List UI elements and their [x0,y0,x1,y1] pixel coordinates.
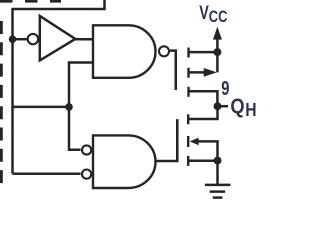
transistor Q1 gate bar [175,51,177,90]
wire: dot to inverter bubble [13,38,28,41]
wire: left bus to node B [13,106,70,109]
svg-text:9: 9 [221,78,229,100]
wire: vertical through node B [69,102,81,150]
transistor Q2 drain contact bar [187,114,189,124]
NAND U3 input bubble 1 [82,145,91,154]
transistor Q2 gate bar [176,119,178,161]
transistor Q1 drain contact bar [187,87,189,97]
wire: Q2 body lead [198,141,218,160]
NAND gate U2 (top) [93,25,156,78]
transistor Q2 source contact bar [187,156,189,166]
wire: NAND2 output to Q2 gate [157,119,178,161]
dashed box top edge [0,0,61,3]
wire: top horizontal [13,0,105,9]
wire: VCC rail [216,35,219,72]
svg-text:V: V [199,3,209,24]
wire: Q1 drain lead to output [189,91,218,106]
node: VCC junction dot [213,48,221,56]
node A (dot on left bus) [9,35,17,43]
transistor Q2 body contact bar [187,136,189,147]
wire: Q1 source lead [189,51,218,54]
NAND U2 output bubble [159,46,169,56]
VCC arrow [213,27,222,40]
svg-text:H: H [245,100,256,120]
wire: output tap to QH [218,105,229,108]
wire: output node down to Q2 drain [188,106,217,119]
node: ground junction dot [214,157,222,165]
svg-text:Q: Q [230,95,244,118]
NAND U3 input bubble 2 [82,170,91,179]
node: output junction dot [214,102,222,110]
wire: to lower NAND input B [13,173,81,176]
wire: Q2 source lead [188,160,217,163]
transistor Q1 source contact bar [187,48,189,58]
wire: NAND1 input B [69,63,94,103]
ground symbol [205,185,231,198]
transistor Q2 body arrow [190,138,199,146]
dashed box left edge [0,21,3,189]
wire: Q1 body lead [189,71,206,74]
node B (dot, junction mid-left) [65,103,73,111]
wire: left vertical bus [11,8,14,174]
wire: inverter output to NAND1 [75,38,93,41]
transistor Q1 body contact bar [187,68,189,78]
transistor Q1 body arrow [204,68,217,77]
NAND gate U3 (bottom) [93,135,156,188]
wire: NAND1 output to Q1 gate [170,51,176,90]
svg-text:CC: CC [209,8,228,26]
wire: down to ground [216,161,219,185]
inverter U1 input bubble [28,34,38,44]
inverter U1 triangle [40,16,76,61]
